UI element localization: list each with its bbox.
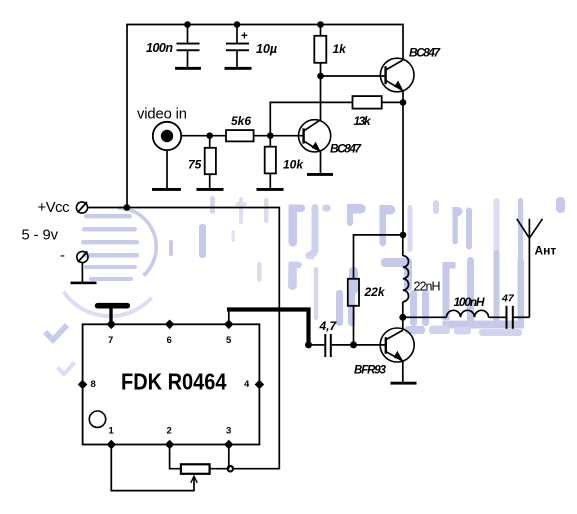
svg-text:10µ: 10µ bbox=[256, 42, 277, 56]
svg-text:22k: 22k bbox=[364, 285, 386, 299]
capacitor 4,7 bbox=[309, 319, 354, 357]
svg-text:BC847: BC847 bbox=[409, 46, 441, 60]
ground under 10k bbox=[257, 188, 284, 191]
capacitor 10u electrolytic bbox=[226, 25, 277, 68]
resistor 1k bbox=[314, 25, 347, 77]
inductor 22nH bbox=[403, 235, 441, 317]
node junction Vcc / left riser bbox=[124, 204, 131, 211]
svg-text:1k: 1k bbox=[333, 42, 348, 56]
resistor 75 bbox=[188, 136, 216, 188]
node junction 13k / emitter line bbox=[400, 99, 407, 106]
svg-text:FDK R0464: FDK R0464 bbox=[121, 369, 227, 395]
label 5-9v bbox=[22, 227, 59, 243]
pin 4 bbox=[244, 379, 264, 390]
svg-text:4: 4 bbox=[244, 379, 250, 390]
transistor Q1 BC847 top bbox=[380, 46, 441, 92]
ground under RCA bbox=[152, 188, 181, 191]
node junction pot right / pin3 / Vcc bbox=[228, 466, 233, 471]
svg-text:+Vcc: +Vcc bbox=[38, 200, 71, 216]
module FDK R0464 bbox=[83, 324, 260, 444]
svg-text:BC847: BC847 bbox=[330, 142, 362, 156]
svg-text:2: 2 bbox=[167, 426, 172, 437]
pin 1 bbox=[107, 426, 117, 450]
svg-text:6: 6 bbox=[167, 335, 172, 346]
svg-text:100n: 100n bbox=[146, 41, 173, 55]
resistor 13k bbox=[353, 96, 404, 128]
node junction 22k / base BFR93 bbox=[350, 341, 357, 348]
ground under 10u bbox=[225, 67, 252, 70]
svg-text:1: 1 bbox=[109, 426, 115, 437]
wire emitter line down to oscillator bbox=[402, 102, 404, 235]
node junction top rail / 100n bbox=[184, 21, 191, 28]
resistor 5k6 bbox=[210, 114, 271, 141]
svg-text:100nH: 100nH bbox=[454, 295, 485, 309]
ground under minus terminal bbox=[71, 282, 97, 285]
transistor Q2 BC847 video amp bbox=[299, 120, 363, 156]
WATERMARK bbox=[43, 196, 565, 377]
terminal +Vcc bbox=[38, 200, 88, 216]
svg-text:Ант: Ант bbox=[535, 244, 557, 258]
potentiometer trimmer bbox=[170, 445, 231, 474]
svg-text:8: 8 bbox=[91, 379, 96, 390]
wire +Vcc rail to right bbox=[88, 208, 280, 469]
wire antenna feed bbox=[528, 238, 530, 317]
wire Q2 base bbox=[270, 135, 303, 137]
capacitor 47 bbox=[501, 293, 529, 329]
terminal minus bbox=[60, 248, 88, 282]
ground under 75 bbox=[197, 188, 224, 191]
node junction RCA / 75 / 5k6 bbox=[206, 132, 213, 139]
wire pin 1 to wiper bbox=[111, 445, 197, 491]
svg-text:4,7: 4,7 bbox=[319, 319, 338, 333]
pin 7 bbox=[107, 320, 117, 347]
connector video in RCA bbox=[137, 107, 210, 189]
svg-text:7: 7 bbox=[108, 335, 113, 346]
transistor Q3 BFR93 bbox=[354, 317, 415, 381]
wire base node to 13k bbox=[270, 102, 352, 135]
pin 6 bbox=[165, 320, 175, 347]
resistor 22k bbox=[348, 279, 386, 345]
tuning slug symbol on pin 7 bbox=[98, 306, 128, 325]
svg-text:75: 75 bbox=[188, 158, 202, 172]
svg-text:13k: 13k bbox=[354, 114, 372, 128]
ground under Q2 bbox=[307, 173, 333, 176]
pin 8 bbox=[78, 379, 96, 390]
node junction collector BFR93 / output bbox=[399, 314, 406, 321]
svg-text:5k6: 5k6 bbox=[231, 114, 251, 128]
pin 2 bbox=[165, 426, 175, 450]
svg-text:video in: video in bbox=[137, 107, 187, 123]
wire output line bbox=[403, 316, 447, 318]
svg-text:22nH: 22nH bbox=[414, 280, 441, 294]
svg-text:+: + bbox=[241, 31, 248, 43]
inductor 100nH bbox=[447, 295, 507, 317]
svg-text:3: 3 bbox=[226, 426, 231, 437]
svg-text:5 - 9v: 5 - 9v bbox=[22, 227, 59, 243]
node junction top rail / 1k bbox=[317, 21, 324, 28]
ground under BFR93 bbox=[391, 382, 417, 385]
capacitor 100n bbox=[146, 25, 200, 68]
pin 5 bbox=[224, 320, 234, 347]
wire Q1 emitter down bbox=[402, 91, 404, 103]
wire collector line to Q2 bbox=[320, 76, 322, 121]
wire collector node to 22k bbox=[354, 235, 404, 279]
svg-text:BFR93: BFR93 bbox=[354, 365, 387, 377]
node junction 4,7 cap left bbox=[305, 341, 312, 348]
wire pin 3 down bbox=[228, 445, 230, 469]
svg-text:5: 5 bbox=[226, 335, 232, 346]
wire top supply rail bbox=[127, 25, 403, 208]
node junction 5k6 / 10k / Q2 base bbox=[267, 132, 274, 139]
svg-text:10k: 10k bbox=[283, 158, 304, 172]
node junction 1k / Q1 base bbox=[317, 73, 324, 80]
svg-text:-: - bbox=[60, 248, 65, 264]
svg-text:47: 47 bbox=[501, 293, 515, 305]
resistor 10k bbox=[265, 136, 305, 188]
wire pin 5 to coupling cap (bold) bbox=[227, 310, 309, 345]
node junction emitter line / tank bbox=[400, 232, 407, 239]
node junction top rail / 10u bbox=[234, 21, 241, 28]
antenna bbox=[517, 219, 557, 258]
wire Q1 base bbox=[321, 75, 386, 77]
pin 3 bbox=[224, 426, 234, 450]
ground under 100n bbox=[175, 67, 201, 70]
wire Q2 emitter to ground bbox=[320, 152, 322, 174]
